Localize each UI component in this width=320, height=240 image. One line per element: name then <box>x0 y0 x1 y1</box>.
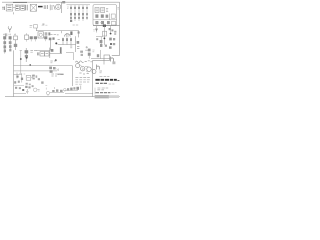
component row blobs <box>30 36 55 40</box>
flecks row1 right <box>106 8 108 11</box>
title light lines <box>97 88 108 90</box>
wire drop at x61 <box>61 2 63 13</box>
wires around Q2 Q3 <box>80 65 93 73</box>
tick x54.5 <box>54 87 56 89</box>
riser x75.6 <box>75 36 77 52</box>
wire x78.6 <box>78 31 80 37</box>
wire box to marks <box>31 75 34 78</box>
col2 wire <box>9 39 11 51</box>
title medium line2 <box>96 82 107 84</box>
motor M1 <box>56 4 61 9</box>
vertical wire x26 <box>25 48 27 62</box>
ladder bottom blob <box>70 20 72 22</box>
label text right of box <box>42 24 48 26</box>
vertical string x101 blobs <box>100 40 103 43</box>
junction dot on line y65 <box>29 64 31 66</box>
connector ladder K1 vertical pins <box>71 5 83 21</box>
wire y93.3 <box>14 92 27 94</box>
connector ladder top bus <box>67 4 91 6</box>
vertical x17 <box>16 73 18 79</box>
small box above bus <box>34 25 38 28</box>
cluster under D2 <box>14 44 17 47</box>
border step at right <box>112 55 120 57</box>
dark blob on bus <box>103 25 106 27</box>
faint blob (112-115.5,61-64.5) <box>112 61 115 64</box>
faint mark mid <box>42 23 44 25</box>
relay K2 box row1 <box>95 8 99 13</box>
blobs right of riser <box>77 41 80 44</box>
title gray band <box>95 95 109 98</box>
junction dot dark (110.6,33.6) <box>110 33 112 35</box>
label flecks (30-37,50-52) <box>30 51 36 53</box>
tick top of bus B <box>20 50 22 52</box>
bumpy resistor chain top <box>75 61 83 63</box>
narrow box on x104.6 <box>103 31 107 36</box>
junction dot dark (56.3,43.3) <box>55 42 57 44</box>
wire y53.6 <box>50 53 62 55</box>
resistor R20 <box>25 55 28 57</box>
vertical string x89 <box>88 49 91 52</box>
chain wire y90.6 <box>64 90 78 92</box>
blob (21-23,77.5-80) <box>21 78 23 80</box>
blobs (108.6-113,27.5-32.5) <box>109 28 111 30</box>
col1 wire <box>4 39 6 53</box>
marks (32-37.5,74-79.5) <box>32 75 34 77</box>
marks (15-21,86.5-89.5) <box>15 87 17 89</box>
marks right of Q4 <box>99 71 102 73</box>
h-mark transistor (96-100,64.5-69.5) <box>97 65 100 70</box>
row lead ticks <box>27 39 46 41</box>
box pair U7 <box>40 52 45 56</box>
wire bus y44.6 <box>58 44 76 46</box>
plus marks top <box>19 72 25 75</box>
title dark text line1 <box>95 79 116 81</box>
riser x80.8 <box>80 86 82 90</box>
riser x100.6 <box>100 50 102 59</box>
top-right subcircuit container <box>93 5 117 26</box>
diode D5 <box>96 26 98 33</box>
switch S1 <box>50 5 55 11</box>
label flecks y39 right <box>58 38 60 40</box>
ladder contact row 2 <box>70 13 88 15</box>
title block left edge tick <box>94 88 96 95</box>
title block: light top line <box>99 76 109 78</box>
dark mark (22-24,89-91) <box>22 89 24 91</box>
right mid: bus y25.6 <box>93 25 120 27</box>
vertical x92.7 <box>92 73 94 97</box>
transformer T2 arch <box>64 34 70 37</box>
box row3 right <box>111 21 115 25</box>
marks below bus <box>70 46 79 48</box>
vertical bus x13.5 <box>13 50 15 96</box>
diode D2 box col3 <box>14 36 18 40</box>
label text row mid2 <box>73 24 79 26</box>
title light flecks right of line2 <box>109 83 115 85</box>
blob (16.5-18.5,75.5-77.5) <box>16 76 18 78</box>
long vertical x104.6 <box>104 26 106 45</box>
box R11 with tick <box>25 33 27 35</box>
wire top chain <box>13 7 15 9</box>
notes text block row3 <box>75 81 89 83</box>
junction dot dark (111,44) <box>110 43 112 45</box>
junction dot dark (104.4,38.4) <box>104 38 106 40</box>
title medium text line3 <box>95 92 110 94</box>
relay RY2 box <box>38 32 43 38</box>
faint blobs (80-84,50-56) <box>80 51 83 53</box>
transistor Q2 <box>81 67 85 71</box>
plus mark (85-88,46-51) <box>85 46 88 50</box>
box (26,75.5-80.5) <box>26 76 31 81</box>
tick left of D5 <box>93 29 94 31</box>
chain flecks to vertical <box>85 61 93 62</box>
bar (60.5,47-53) <box>60 47 62 53</box>
text flecks (51-60.5,73-77) <box>51 74 60 76</box>
title band right fade <box>109 95 119 98</box>
AC plug P1 <box>2 7 5 11</box>
capacitor C2 <box>21 5 25 10</box>
junction dot (55.8,60) <box>55 59 57 61</box>
resistor col2 upper <box>9 36 12 39</box>
marks (96-99,38-41) <box>96 38 98 40</box>
top border dark segment <box>13 1 27 3</box>
faint marks (25-31,82-86) <box>26 83 28 85</box>
resistor R4 beside <box>48 32 50 35</box>
vertical x92.6 upper <box>92 60 94 72</box>
label text left of box <box>30 26 33 28</box>
transistor Q4 <box>92 70 96 74</box>
vertical x110.6 <box>110 26 112 33</box>
capacitor col2 lower <box>9 41 12 44</box>
riser x50.3 <box>49 40 51 50</box>
h-mark connector (110-113.5,56.5-61.5) <box>111 57 114 62</box>
wire y58.6 <box>91 58 110 60</box>
capacitor C3 <box>44 5 47 9</box>
transformer T1 <box>30 4 36 11</box>
long wire y70.9 <box>14 70 58 72</box>
label above bus <box>96 22 102 24</box>
capacitor C11 <box>37 52 38 55</box>
title line1 tail dash <box>117 80 119 82</box>
wire y93.6 <box>65 93 93 95</box>
cluster blobs (49-58,66-73) <box>49 67 52 70</box>
chain blobs y89-93 left <box>52 90 54 92</box>
mark above dash <box>57 68 59 71</box>
ladder contact row 1 <box>70 7 88 9</box>
marks (114-117,30.5-34) <box>114 31 116 33</box>
marks (37-45,77-84.5) <box>38 78 40 80</box>
marks outside container right <box>117 7 119 9</box>
label flecks (50-57,60-63) <box>50 61 56 63</box>
faint mark (92-95,49-53) <box>92 50 94 52</box>
string right blobs <box>109 38 112 41</box>
riser x72.5 <box>72 66 74 86</box>
dash (57.5-63.5,74.2) <box>58 73 64 75</box>
capacitor row3 blobs <box>95 21 98 24</box>
wire x109.6 row2 <box>109 13 111 19</box>
notes text block row1 <box>75 77 89 79</box>
sheet top border <box>2 1 120 3</box>
capacitor col1 lower <box>3 41 6 44</box>
IC U1 box row1 <box>101 8 105 13</box>
transistor Q3 <box>87 67 91 71</box>
junction dot dark (26.5,57.5) <box>26 57 28 59</box>
capacitor C5 beside RY2 <box>45 32 47 35</box>
marks (97,54-57) <box>97 54 99 57</box>
long wire y65.7 <box>14 65 73 67</box>
container divider <box>93 19 117 21</box>
varistor RV1 <box>5 33 6 36</box>
marks below transistors <box>79 73 88 74</box>
T2 inner leads <box>66 33 68 37</box>
bottom-left: wire y74.5 <box>14 74 22 76</box>
ladder contact row 3 <box>70 17 88 19</box>
wire mid bus y30.6 <box>36 30 79 32</box>
wire riser x36.6 <box>36 28 38 31</box>
notes text block row2 <box>75 79 89 81</box>
label left of ladder <box>67 7 69 9</box>
symbol circle (46-50,91-95) <box>46 91 49 94</box>
tick marks above left columns <box>4 34 16 36</box>
chain blobs y87.5-91 right <box>67 88 69 90</box>
blob (51,49.5) <box>51 49 54 52</box>
node blob top <box>62 1 65 3</box>
fuse F1 (dark) <box>38 6 43 8</box>
capacitor C10 <box>25 50 29 53</box>
terminal dots above Y1 <box>8 26 12 28</box>
capacitor C1 <box>15 5 19 10</box>
transistor Q1 <box>76 64 80 68</box>
wire y85.5 left <box>14 84 24 86</box>
wire drop x15.5 <box>15 40 17 50</box>
box U8 <box>104 55 110 60</box>
resistor sticks above bus <box>63 38 71 45</box>
blob on x78.6 top <box>78 31 80 33</box>
transistor cluster (33-38,88-92) <box>33 88 37 92</box>
cluster (25-29,84-89) <box>25 86 27 88</box>
label text row3 <box>50 34 59 36</box>
antenna Y1 <box>8 27 12 32</box>
wire y36.6 <box>96 36 103 38</box>
line filter FL1 <box>6 4 13 11</box>
blobs (14-16,81-84) <box>14 81 16 83</box>
wire y50.6 <box>36 50 50 52</box>
resistor col1 upper <box>3 36 6 39</box>
notes text block row4 <box>75 83 81 85</box>
marks (104-108,44-48) <box>105 45 107 47</box>
wire y52.6 right <box>66 52 74 54</box>
tick below bus x61.5 <box>61 31 63 34</box>
resistor R1 <box>26 5 28 11</box>
ground GND1 <box>26 89 29 93</box>
vertical x21.8 <box>21 73 23 83</box>
riser x49.8 <box>49 48 51 58</box>
vertical bus B x20.8 <box>20 51 22 74</box>
chain circle (63.5-66,88.5-91) <box>64 89 67 92</box>
box row2 right <box>111 14 115 18</box>
sheet right border <box>119 2 121 55</box>
T2 core blob <box>70 31 72 35</box>
title band texture <box>95 96 108 97</box>
sheet bottom border <box>5 96 120 98</box>
title line3 faint tail <box>111 92 116 94</box>
tick below filter <box>12 12 14 14</box>
wire y60.3 with drop x104 <box>93 60 104 64</box>
marks (45-47,85-90) <box>45 86 47 90</box>
bottom chain wire y92.3 <box>50 91 64 93</box>
junction dot dark (20.8,59) <box>20 58 22 60</box>
riser x73.6 <box>73 53 75 60</box>
resistor row2 blobs <box>95 14 98 17</box>
